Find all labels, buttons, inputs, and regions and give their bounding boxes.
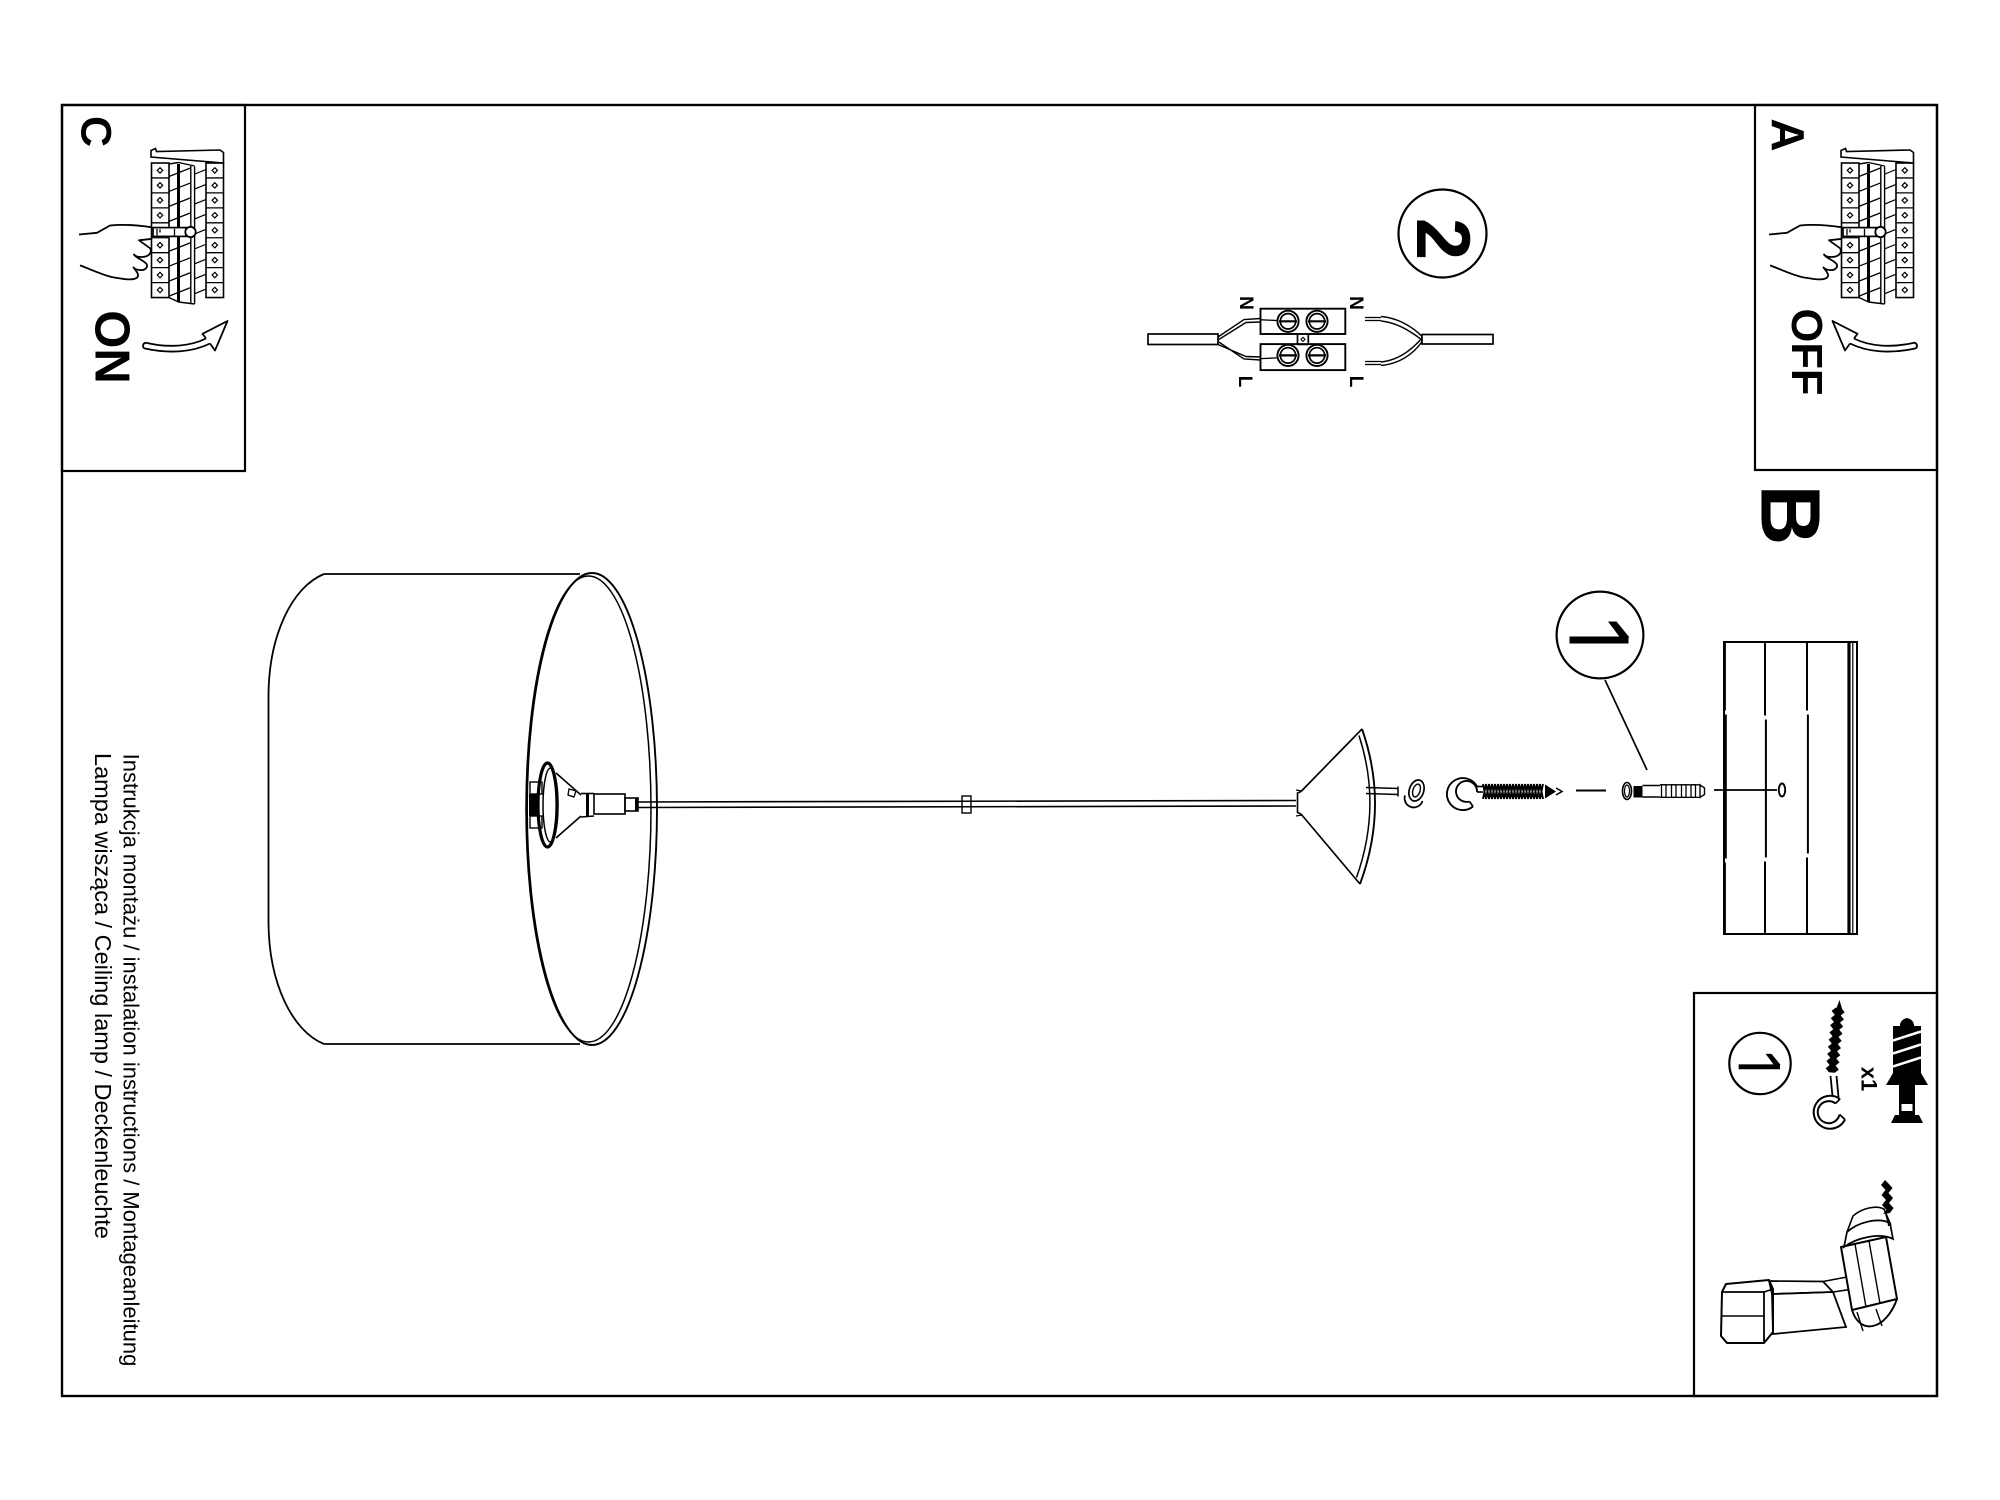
svg-text:C: C <box>72 116 120 147</box>
svg-text:L: L <box>1234 376 1255 388</box>
svg-text:OFF: OFF <box>1782 309 1830 396</box>
svg-text:A: A <box>1762 118 1814 151</box>
svg-text:N: N <box>1235 296 1256 310</box>
svg-text:Lampa wisząca / Ceiling lamp /: Lampa wisząca / Ceiling lamp / Deckenleu… <box>90 753 116 1239</box>
svg-text:N: N <box>1345 296 1366 310</box>
svg-text:ON: ON <box>85 310 139 384</box>
svg-text:2: 2 <box>1400 218 1485 260</box>
svg-text:Instrukcja montażu / instalati: Instrukcja montażu / instalation instruc… <box>119 754 144 1367</box>
svg-text:x1: x1 <box>1857 1067 1882 1091</box>
svg-text:L: L <box>1345 376 1366 388</box>
svg-text:B: B <box>1744 485 1838 546</box>
